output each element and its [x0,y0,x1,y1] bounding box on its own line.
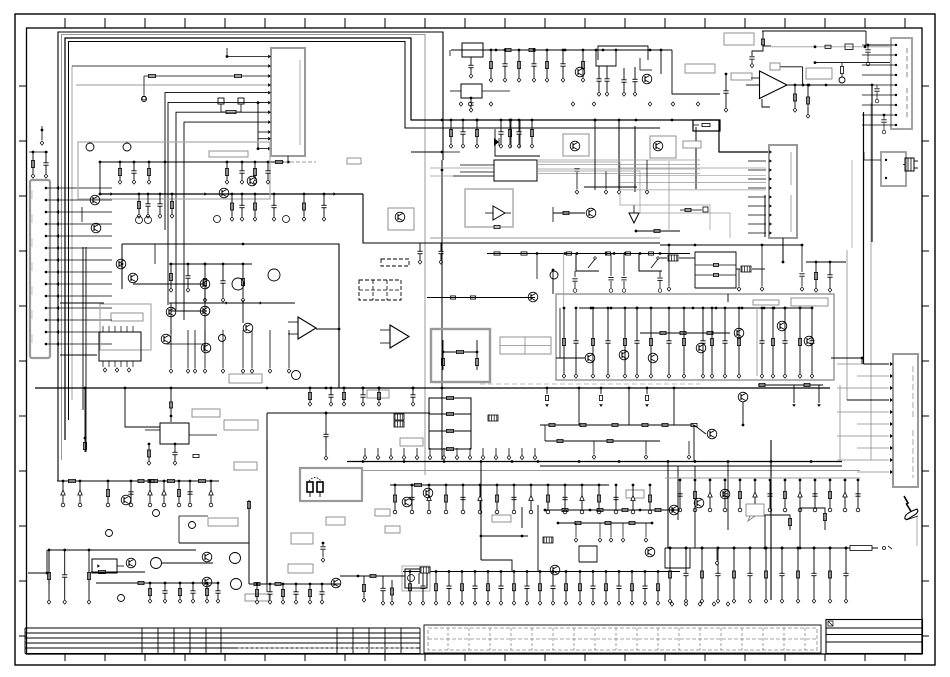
pilot circle P1 [232,278,244,290]
transistor Q32 [331,578,341,588]
bus wire y466 [540,465,842,467]
shield box around IC mid-left [100,304,151,350]
vertical wire x249 [247,500,250,584]
transformer T1 [394,414,404,427]
circle on shield top 1 [86,142,94,151]
row D circles [136,216,290,224]
cluster bus y355 [60,354,97,356]
wire rect loop top [598,46,648,60]
module box around buffer opamp [465,189,513,227]
y388 vertical drops [578,387,676,425]
pilot circle P11 [151,558,162,569]
transformer loop rect [695,252,736,288]
chain y510 [544,508,680,511]
bus y120 dots [441,119,674,122]
optocoupler box [402,566,430,591]
bus wire y388 (long horizontal) [35,387,830,389]
pilot circle P4 [106,530,113,537]
bus wire y194 [100,192,363,195]
component row L2 (y548 right) [668,547,848,604]
cap strings row E [572,254,662,293]
vertical wire x871 grey [870,103,872,460]
diode cluster near bus120 [494,120,540,156]
bus y548 junction dots [669,547,848,550]
wire y297 [427,296,535,299]
transistor Q14 [570,141,580,151]
transistor Q10 [201,343,211,353]
revision table (bottom left) [25,628,420,654]
small table mid [500,337,551,354]
grey box internal vertical grey [756,308,758,376]
vertical wire x872 [871,85,873,242]
IC box (461,84) [450,84,510,112]
module box around Q (650,136) [650,136,676,158]
pin wire row 10 [258,137,271,141]
left cluster strings y550 [47,549,91,605]
bus wire y253 [487,252,690,255]
pin feeder vertical x258 [257,101,260,150]
row F remnant strings [814,261,832,293]
inline box component top right [693,120,720,131]
transistor Q27 [707,429,717,439]
op-amp U2 [288,317,316,339]
connector mid-right (769,145) [769,145,797,238]
pin wire row 11 [258,147,271,151]
left border centring ticks [19,86,27,636]
grey box exit wire [831,357,862,359]
vertical x522 [521,507,523,528]
connector block top-left [271,48,305,156]
optocoupler box small [92,559,124,573]
loop rect A [579,546,597,562]
module box mid (thick grey) [431,329,490,382]
vertical wire x267 [266,440,268,584]
bus wire y584 right [249,582,340,585]
strings under y576 [362,576,394,605]
component row C (y162) [118,161,151,185]
pilot circle P10 [550,271,558,279]
op-amp U1 [746,71,787,99]
transistor Q15 [653,141,663,151]
bottom right corner wires [764,508,827,549]
transistor Q7 [166,307,176,317]
circle on shield top 2 [123,142,131,151]
transistor Q8 [200,279,210,289]
vertical wire x122 [121,244,123,289]
transistor Q35 [550,565,560,575]
component row K1 (y481 left) [61,480,213,507]
pin wire row 6 (bends at x168) [168,101,271,305]
cap string x326 [323,412,328,461]
component row M1b (y584) [255,583,324,605]
bus wire y485 right [390,483,609,486]
pin wire row 1 [226,48,271,58]
pilot circle P8 [230,553,241,564]
title block (bottom right) [826,620,923,654]
bus loop wire 1 [58,32,443,481]
wire top connector to bus [442,151,460,153]
transistor Q6 [161,334,171,344]
vertical wire x863.5 [863,112,865,364]
IC box (160,423) [145,423,217,465]
module box right (882,152) [864,152,906,186]
transistor Q29 [126,558,136,568]
grey wire y471 [363,470,860,472]
grey box internal mid bus [640,331,730,334]
bus wire y63 top right [814,61,890,64]
vertical x537 drop [536,254,538,280]
bus y576 left feed [340,574,405,577]
connector J left edge [30,180,50,358]
chain to Q [694,425,706,434]
switch corner 1 [576,254,599,272]
vertical wire x339 [122,244,339,388]
transistor Q21 [648,353,658,363]
buffer U4 [485,206,511,229]
grey box left entry wire [556,308,585,358]
vertical wire x85 [83,388,86,452]
ladder network (nested loops) [429,396,471,450]
vertical wire x695 [694,466,696,548]
cluster vertical links [83,247,243,452]
pilot circle P13 [839,77,845,83]
vertical wire x125 [125,388,160,427]
op-amp U3 [380,325,409,348]
stub strings under y243 [417,243,443,264]
wire left corner y573 [28,550,48,574]
grey route right edge [851,160,853,248]
connector bottom-right feeds [847,364,889,400]
vertical wire x635 [634,126,636,192]
pilot circle P9 [231,579,242,590]
vertical x538 [537,505,539,571]
terminal squares pair [218,98,244,114]
hanging resistor with circle [840,63,843,77]
pin wire row 9 [258,130,271,134]
bus wire y50 top middle [450,48,672,56]
wire y213 to Q [553,207,585,222]
component row B (y120) [449,119,534,149]
series chain y441 [545,439,660,442]
pilot circle P7 [189,522,196,529]
bus loop wire 5 (short) [71,66,73,400]
transistor Q9 [200,306,210,316]
vertical wire x728 [727,461,729,530]
bus wire y94 top [672,50,720,94]
transistor Q38 [694,498,704,508]
wire y152 jog [411,151,443,154]
left edge small cluster [29,126,49,178]
IC grey outputs [537,160,766,190]
module box mid inner circuit [441,340,478,370]
grey wire y478 [665,477,860,479]
transistor Q22 [696,343,706,353]
pilot circle P3 [292,371,301,380]
IC third input wire [453,175,494,177]
IC box (462,43) [462,43,483,78]
bus wire y47 top right [763,44,890,50]
wire circle link y563 [162,562,213,564]
vertical wire x442 [441,160,444,460]
loop rect B [665,548,690,568]
wire y231 with res [635,229,680,232]
pencil cursor icon [904,496,918,546]
connector bottom-right pins [837,362,893,474]
pilot circle P12 [219,335,226,342]
value label boxes [192,33,832,601]
transistor Q20 [619,350,629,360]
bus wire corner x363 [363,194,660,243]
transistor Q28 [121,495,131,505]
top cluster caps [596,66,637,96]
loop cluster grounds [667,245,804,291]
bus wire y571 mid [403,571,680,573]
transistor Q25 [804,336,814,346]
transistor Q2 [219,188,229,198]
component row K2 (y485 right) [393,484,652,514]
component row H2 (y388 mid) [308,387,415,407]
terminal square mid [680,207,708,212]
pin wire row 8 (bends at x184) [184,120,271,320]
wire x862 drop [861,358,863,364]
row J terminal diamonds [363,448,537,460]
transformer T2 [488,415,498,421]
wire x553 riser [552,269,555,294]
transistor Q1 [90,195,100,205]
wire y187 link [584,186,637,188]
opto box bottom res [99,570,106,573]
module box mid-right (grey) [556,294,834,380]
connector bottom-right edge [893,354,918,487]
wire y174 grey pair [430,168,494,176]
transistor Q36 [645,547,655,557]
IC box (494,160) [460,160,537,181]
transistor Q4 [116,259,126,269]
module box with coil icon (bottom left) [300,468,362,501]
component row M2 (y571) [408,570,568,605]
top border centring ticks [65,18,905,28]
component row D2 (y194) [230,193,326,222]
pilot circle P5 [118,595,125,602]
pilot circle P6 [153,510,160,517]
pin wire row 3 [142,74,271,100]
wire y413 [170,412,430,418]
transistor Q40 [91,223,101,233]
transistor Q23 [734,328,744,338]
transformer T5 [543,537,553,543]
transistor Q37 [669,505,679,515]
bus wire y85 opamp output [787,84,873,87]
component row M1 (y583) [148,582,220,604]
bus y481 inline resistors [69,479,206,482]
cap string x323 [320,542,325,563]
pilot circle P14 [142,97,147,102]
vertical wire x619 [618,119,621,192]
wire x717 drop [715,548,719,565]
vertical wire x165b [164,162,166,194]
right border centring ticks [922,86,929,636]
top cluster loops [430,49,662,238]
vertical wire x481 [480,461,482,560]
component row A (top middle, y50) [489,49,585,83]
op-amp U1 lower wire [762,99,770,107]
pilot circle P2 [268,269,280,281]
transistor Q16 [586,208,596,218]
cluster bus y303 [60,301,295,304]
transistor Q30 [202,552,212,562]
transistor Q13 [642,74,652,84]
cluster gnd row [169,330,291,373]
vertical wire x840 grey [839,385,841,460]
transformer T4 inline [736,266,765,272]
row D extra strings [157,193,173,219]
pin wire row 5 (bends at x165) [165,91,271,230]
parts list strip table (bottom middle) [424,625,821,653]
transistor Q33 [402,497,412,507]
wire y536 [480,535,528,538]
connector top-right edge [891,38,912,129]
top middle gnd row [459,102,700,106]
dashed option table [359,280,401,300]
wire y358 right link [834,357,863,360]
transistor Q18 [528,292,538,302]
bus wire y543 [179,542,249,544]
grey box internal top bus [579,307,812,310]
bus y461 junction dots [362,460,813,463]
transistor Q11 [243,323,253,333]
connector top-right pins [862,44,897,126]
IC label box [111,313,143,321]
pin wire row 7 (bends at x176) [176,110,271,310]
bus wire y583 [96,581,218,584]
chain y523 [557,521,654,524]
IC grey stepped route 2 [537,171,730,238]
gnd drops y540 [574,523,648,542]
component row G (grey box interior) [562,307,814,379]
transistor Q19 [585,353,595,363]
inverter symbol (down triangle) [629,205,639,223]
right chain y385 [758,383,823,407]
chain link verticals [545,402,744,461]
connector mid-right pins [748,150,772,237]
transistor Q17 [395,212,405,222]
bus wire y572 left [91,571,145,573]
component row C2 (y162) [225,161,270,185]
series resistor chain y425 [540,423,697,426]
speech bubble label [746,504,764,521]
grey vertical x669 [668,161,670,231]
wire y516 link [179,516,208,543]
IC box (99,332) [99,326,141,372]
connector mid-right bottom drop [782,238,785,263]
vertical x595 [594,119,597,190]
dashed option bar [381,259,409,266]
cluster bus y264 [169,263,252,265]
bus wire y480 left [57,479,219,482]
bus wire y548 right [665,546,892,551]
switch corner 2 [639,254,662,272]
bus wire y262 right [806,261,846,263]
vertical wire x771 [770,440,772,600]
x172 drop with res [169,388,172,422]
vertical wire x678 [677,466,679,520]
op-amp U1 output strings [793,84,810,119]
transistor Q24 [777,321,787,331]
component row D (y194) [137,193,150,219]
bus y162-y194 left link [99,161,102,196]
bus y388 junction dots [84,387,649,390]
transistor Q12 [575,67,585,77]
vertical wire x763 [749,31,764,68]
vertical wire x668 [667,461,669,548]
bus wire y461 (long horizontal) [347,461,842,463]
transformer loop cluster bus [660,244,803,247]
component row K3 (right of box) [677,479,860,512]
transformer T right edge [903,158,918,171]
bottom border centring ticks [65,654,905,661]
transistor Q3 [247,176,257,186]
shield box top-left region [78,142,270,199]
connector J pins and wires [45,186,112,346]
top rail right segment [762,31,889,45]
opamp U2 out wire [316,328,340,331]
pin wire row 4 [76,83,271,87]
wire x728 riser [727,294,729,302]
mid-left cluster links [82,207,244,344]
transistor Q26 [738,392,748,402]
transistor Q39 [720,489,730,499]
transformer T3 inline [660,255,695,261]
bus wire y388 dashed grey [480,383,700,385]
grey riser x563 [563,254,565,309]
connector top-right feed caps [865,44,886,134]
row B gnd row [574,160,648,194]
x267 upper link [266,413,268,440]
cluster strings upper [169,263,245,303]
op-amp U1 feedback loop [770,63,803,85]
vertical wire x696 [695,127,697,189]
connector bottom stub [287,156,290,163]
coil icon inside box [307,478,323,498]
bus loop wire 2 (grey) [62,35,426,476]
chain gnds [592,441,691,459]
bus wire y162 [101,160,316,163]
bus wire y550 left [49,550,196,584]
y388 stubs with arrows [545,388,649,407]
transistor Q5 [128,273,138,283]
transistor Q34 [423,488,433,498]
bottom ground terminal row [670,602,730,606]
component row M3 (y571 right) [578,570,660,605]
transformer T6 mid [420,567,430,573]
module box around Q (388,208) [388,208,414,230]
module box around Q (563,134) [563,134,589,156]
vertical wire x847 grey [846,250,848,400]
bus loop wire 4 (feeds y128 bus) [69,42,661,421]
IC grey stepped route 1 [537,162,710,230]
pin wire row 2 [72,64,271,68]
transistor Q31 [202,577,212,587]
bus loop wire 3 (feeds y120 bus) [65,38,769,440]
cap string under label [723,73,728,113]
misc jogs bottom [267,560,512,592]
